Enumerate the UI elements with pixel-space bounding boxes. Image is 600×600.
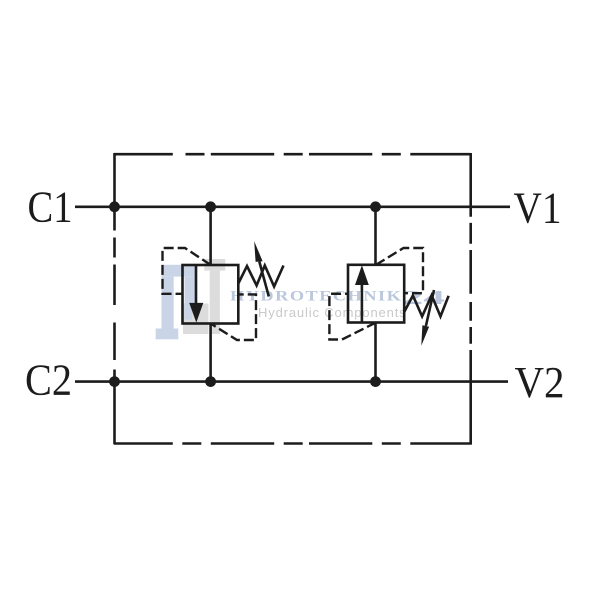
blue leg remnant over foot	[185, 304, 193, 320]
blue pi right leg	[185, 277, 197, 304]
enclosure dashed rectangle right edge	[469, 153, 472, 444]
gray T stem	[210, 271, 220, 334]
relief valve 2 spring	[404, 295, 448, 316]
wire vertical left valve top	[209, 207, 212, 265]
wire C1-V1	[75, 206, 510, 209]
junction dot top middle	[205, 201, 216, 212]
enclosure dashed rectangle bottom edge	[114, 442, 472, 445]
relief valve 1 pilot line upper-left	[163, 248, 211, 294]
junction dot bottom middle	[205, 376, 216, 387]
relief valve 1 flow arrow (down)	[189, 303, 203, 323]
junction dot top right	[370, 201, 381, 212]
svg-text:V1: V1	[514, 183, 562, 232]
relief valve 1 adjustment arrow head	[254, 241, 262, 262]
relief valve 1 adjustment arrow shaft	[259, 262, 269, 297]
relief valve 1 pilot line lower-right	[211, 294, 256, 340]
relief valve 2 body square	[348, 265, 404, 323]
blue pi left foot	[156, 329, 179, 340]
wire vertical left valve bottom	[209, 324, 212, 382]
relief valve 2 flow line	[361, 284, 364, 323]
watermark logo mark	[156, 259, 226, 339]
wire vertical right valve bottom	[374, 323, 377, 382]
wire vertical right valve top	[374, 207, 377, 265]
junction dot C2 left	[109, 376, 120, 387]
svg-text:V2: V2	[515, 358, 565, 407]
relief valve 1 body square	[183, 265, 239, 324]
svg-text:C2: C2	[25, 355, 72, 404]
junction dot bottom right	[370, 376, 381, 387]
relief valve 2 pilot line lower-left	[329, 294, 376, 340]
enclosure dashed rectangle top edge	[114, 153, 471, 156]
junction dot C1 left	[109, 201, 120, 212]
gray T top bar	[204, 259, 225, 271]
blue pi left leg	[162, 277, 174, 329]
relief valve 1 spring	[238, 266, 283, 287]
svg-text:Hydraulic Components: Hydraulic Components	[258, 305, 407, 320]
relief valve 2 flow arrow (up)	[355, 265, 369, 285]
blue pi top bar	[162, 265, 197, 277]
gray foot	[183, 304, 209, 335]
wire C2-V2	[75, 380, 508, 383]
svg-text:C1: C1	[28, 182, 73, 231]
relief valve 2 adjustment arrow head	[421, 325, 429, 346]
enclosure dashed rectangle left edge	[113, 153, 116, 444]
relief valve 2 adjustment arrow shaft	[426, 290, 434, 326]
relief valve 2 pilot line upper-right	[376, 248, 423, 293]
relief valve 1 flow line	[195, 265, 198, 304]
